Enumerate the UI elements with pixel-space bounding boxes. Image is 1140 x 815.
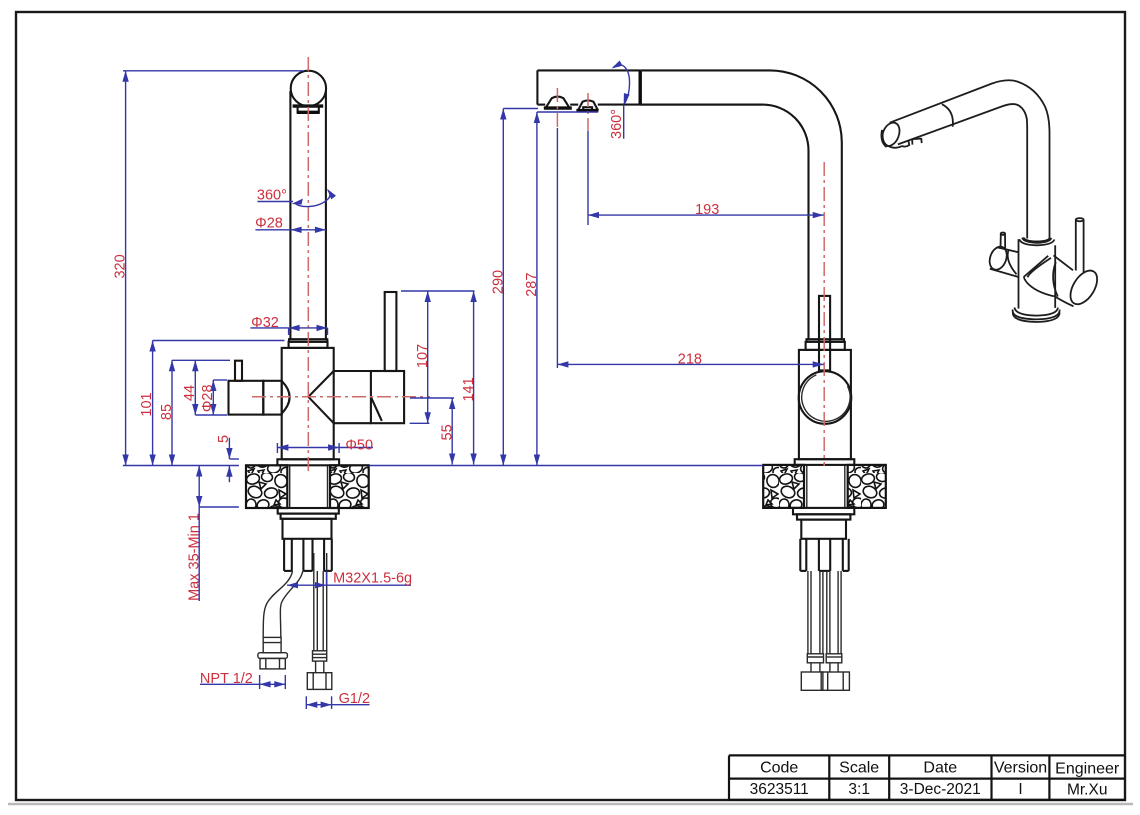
dim npt [260,683,286,685]
dim 85 [171,360,173,465]
dim 55 [451,398,453,465]
svg-text:107: 107 [415,344,431,368]
dim 218 witness [556,128,558,368]
dim 5 lower arrow [228,466,230,483]
3d spout bottom silhouette [898,104,1027,238]
dim g12 tail [332,704,370,706]
side view aerator 1 centerline [556,88,558,128]
svg-text:44: 44 [182,385,198,401]
3d spout end cap [879,120,903,149]
front view left connector [263,381,281,415]
svg-text:193: 193 [695,202,719,218]
svg-text:360°: 360° [257,188,287,204]
dim 101 extension [153,340,285,342]
dim m32 [287,584,326,586]
dim 290 extension top [503,108,538,110]
front view right handle body [371,371,404,423]
dim 360 front leader [257,201,293,203]
svg-text:218: 218 [678,352,702,368]
dim 290 [502,109,504,466]
front view horizontal centerline [252,396,430,398]
dim 193 witness [587,131,589,225]
svg-text:Φ50: Φ50 [345,438,373,454]
front view base flange [277,459,339,465]
side view spout elbow inner [640,105,808,340]
front view spout head circle [291,71,326,106]
side view hose necks [810,663,812,672]
side view shank inner walls through counter [806,465,808,508]
dim max35 tail [198,507,200,601]
side view counter right hatch [848,465,886,508]
dim deck extension right [369,465,764,467]
svg-text:Version: Version [994,759,1047,776]
front view locknut washer 1 [278,508,339,514]
svg-text:Φ28: Φ28 [255,216,283,232]
svg-text:Scale: Scale [839,759,879,776]
dim 360 side swirl [614,65,630,104]
dim phi50 ticks [276,443,278,453]
gray shadow line [8,803,1133,806]
svg-text:5: 5 [216,435,232,443]
svg-text:290: 290 [491,270,507,294]
front view NPT hex cap [258,653,288,659]
front view vertical centerline [307,57,309,471]
dim 360 front swirl [295,190,330,206]
dim phi28 top [291,229,326,231]
front view G hose neck [315,661,317,673]
svg-text:360°: 360° [609,109,625,139]
dim 360 side tail [623,105,625,139]
front view threaded shank [283,519,332,539]
dim 320 [125,71,127,466]
3d right handle cylinder [1054,255,1074,270]
dim m32 tail [326,584,411,586]
front view aerator bracket [293,104,324,107]
side view hex nut right [821,672,849,690]
dim 107 extension bottom [410,422,430,424]
svg-text:Code: Code [760,759,798,776]
side view lever rod [819,296,830,371]
front view right lever rod [385,292,397,371]
side view hex nut left [801,672,823,690]
3d right lever rod [1075,220,1077,271]
dim phi32 [289,327,328,329]
front view G hose collar [313,651,327,661]
svg-text:Engineer: Engineer [1055,760,1120,777]
side view shank prongs [800,539,848,571]
3d collar ring [1019,239,1054,245]
side view hose collars [807,654,823,663]
dim phi28 top tail [255,229,290,231]
svg-text:3:1: 3:1 [848,781,870,798]
front view curved hose to NPT [263,571,292,637]
side view locknut washer 2 [797,514,850,519]
title block middle line [729,777,1125,779]
dim 101 [152,341,154,466]
svg-text:3623511: 3623511 [750,781,809,798]
svg-text:320: 320 [113,254,129,278]
dim phi28 left extension top [213,379,227,381]
front view left cylinder intersection arc [282,381,290,414]
dim 218 [557,363,823,365]
3d body cylinder [1018,239,1020,308]
side view spout elbow outer [640,70,842,339]
3d aerator detail [885,144,903,148]
dim 287 [536,112,538,466]
side view body [799,350,851,459]
side view counter left hatch [763,465,804,508]
3d left handle stem [1000,234,1002,250]
svg-text:101: 101 [139,392,155,416]
svg-text:141: 141 [461,377,477,401]
dim 55 extension top [410,397,454,399]
side view spout head block [537,69,640,71]
side view aerator 2 centerline [587,93,589,131]
dim g12 [306,704,331,706]
side view tube centerline [823,162,825,466]
front view NPT hex nut [260,658,285,669]
svg-text:Max 35-Min 1: Max 35-Min 1 [187,513,203,601]
dim phi50 tail [339,447,373,449]
side view base flange [795,459,855,465]
front view body [282,348,334,459]
dim phi28 left [212,380,214,415]
side view handle boss circle [799,371,852,424]
front view left handle body [229,381,264,415]
dim phi50 [277,447,339,449]
front view vertical tube [289,91,291,339]
svg-text:287: 287 [524,273,540,297]
svg-text:NPT 1/2: NPT 1/2 [200,671,253,687]
front view shank inner walls through counter [289,465,291,508]
dim npt ticks [259,675,261,689]
svg-text:Φ28: Φ28 [200,384,216,412]
svg-text:3-Dec-2021: 3-Dec-2021 [900,781,981,798]
dim npt tail [200,683,260,685]
dim phi32 ticks [288,328,290,335]
dim 320 extension top [123,70,303,72]
side view threaded shank [801,520,846,539]
svg-text:Mr.Xu: Mr.Xu [1067,782,1107,799]
front view straight hose [313,553,315,651]
dim 85 extension [172,359,230,361]
svg-text:I: I [1018,781,1022,798]
title block top line [729,754,1125,756]
title block bottom line [729,799,1125,801]
front view counter left hatch [246,465,287,508]
dim 44 extension bottom [195,414,227,416]
dim 141 [473,291,475,465]
side view locknut washer 1 [793,508,854,514]
front view locknut washer 2 [281,514,336,519]
front view G hex nut [307,673,332,690]
svg-text:55: 55 [440,424,456,440]
front view counter right hatch [330,465,369,508]
front view cone to right handle [308,371,333,397]
dim max35 [198,466,200,508]
front view shank prongs [284,539,332,571]
dim 107 141 extension top [401,290,475,292]
3d v-notch cone [1024,256,1048,282]
3d spout seam arc [942,104,953,127]
side view aerator dome 1 [546,97,570,109]
dim 44 [194,360,196,415]
3d left handle seam [1008,249,1017,274]
dim 5 extension [229,458,239,460]
front view NPT hose collar [263,637,281,652]
front view left handle stem [235,361,242,381]
3d spout top silhouette [890,80,1050,239]
dim m32 tick [326,572,328,586]
dim 193 [588,214,824,216]
side view hoses [808,571,841,654]
front view right handle diagonal [371,397,382,421]
3d base ring [1015,308,1059,316]
front view tube ring collar [289,339,327,342]
svg-text:85: 85 [159,404,175,420]
dim phi32 tail [250,327,288,329]
3d left handle cylinder [998,247,1019,252]
dim 5 upper arrow [228,438,230,459]
dim g12 ticks [305,696,307,709]
dim max35 extension [199,506,239,508]
dim deck extension left [123,465,239,467]
side view tube ring collar [807,339,845,342]
3d right handle seam [1053,262,1058,297]
side view aerator dome 2 [578,100,598,110]
dim 287 extension top [537,111,598,113]
dim 107 [427,291,429,423]
svg-text:Φ32: Φ32 [251,315,279,331]
svg-text:M32X1.5-6g: M32X1.5-6g [333,571,412,587]
svg-text:G1/2: G1/2 [339,691,370,707]
title block verticals [728,755,730,800]
svg-text:Date: Date [923,759,957,776]
